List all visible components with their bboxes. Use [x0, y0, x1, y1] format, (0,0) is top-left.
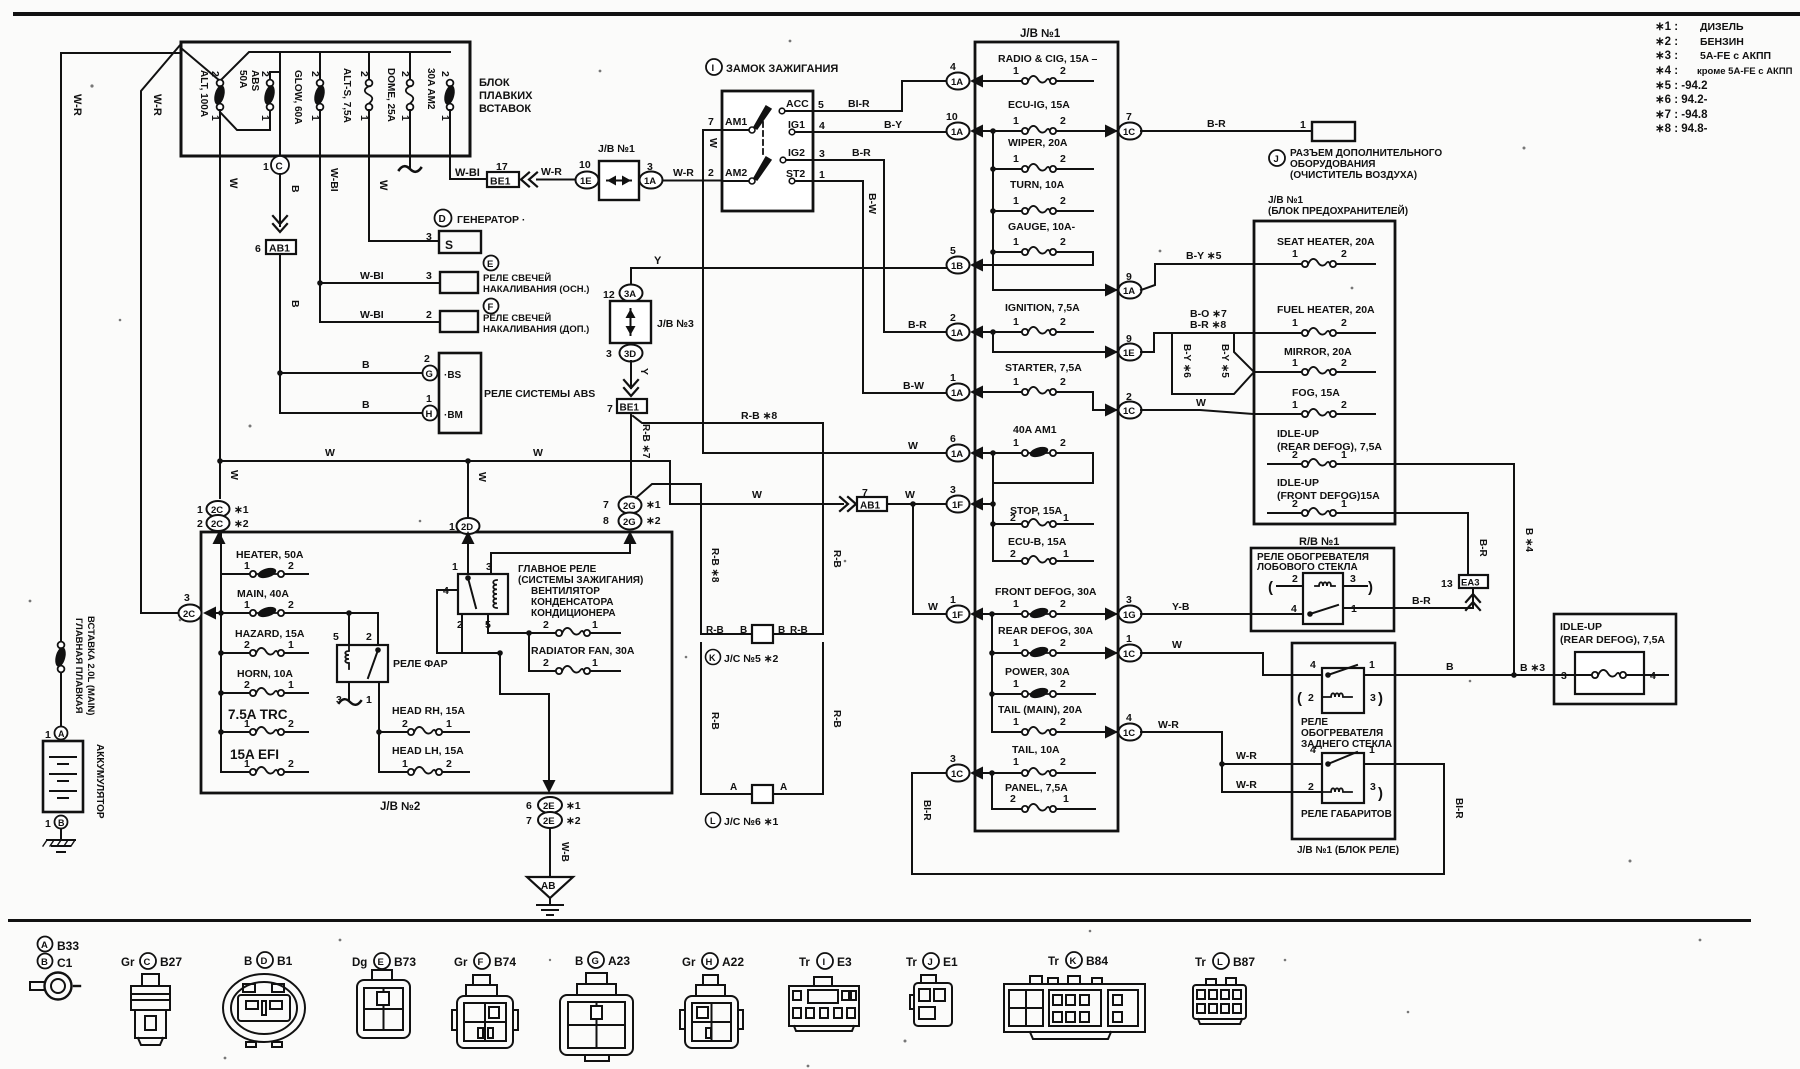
svg-text:A22: A22 — [722, 955, 744, 969]
windshield heater relay element — [1303, 573, 1343, 624]
svg-text:R-B: R-B — [790, 625, 808, 636]
svg-text:B-R: B-R — [908, 319, 927, 331]
svg-text:B: B — [362, 399, 370, 411]
svg-text:4: 4 — [1310, 744, 1316, 756]
svg-text:ALT, 100A: ALT, 100A — [198, 70, 209, 117]
dashed link between levers — [762, 122, 764, 155]
wire to 2E exit — [500, 653, 549, 780]
node A battery positive — [55, 727, 68, 740]
wire STARTER to 1C(2) — [1093, 392, 1118, 410]
svg-text:D: D — [439, 214, 446, 225]
bus AM1 out — [992, 453, 994, 561]
svg-text:B-Y: B-Y — [884, 119, 902, 131]
svg-text:10: 10 — [946, 111, 958, 123]
wire 40A AM1 loop back — [993, 453, 1093, 483]
svg-text:ECU-B, 15A: ECU-B, 15A — [1008, 536, 1067, 548]
svg-text:BI-R: BI-R — [848, 98, 870, 110]
svg-text:БЛОК: БЛОК — [479, 77, 510, 89]
svg-text:E: E — [487, 259, 493, 270]
svg-text:1: 1 — [1126, 633, 1132, 645]
svg-text:1: 1 — [1013, 316, 1019, 328]
arrow into J/B No2 from 2C — [213, 531, 226, 544]
svg-text:B: B — [244, 956, 252, 968]
svg-text:W-R: W-R — [151, 94, 163, 116]
svg-text:3: 3 — [426, 231, 432, 243]
fusible link GLOW 60A — [312, 80, 326, 111]
svg-text:7: 7 — [526, 815, 532, 827]
svg-text:B: B — [58, 818, 65, 828]
node C connector — [271, 156, 289, 174]
svg-text:1C: 1C — [1123, 649, 1135, 660]
svg-text:2: 2 — [1060, 65, 1066, 77]
svg-text:S: S — [445, 238, 453, 252]
svg-text:1: 1 — [592, 657, 598, 669]
node B battery negative — [55, 816, 68, 829]
svg-text:2: 2 — [1292, 498, 1298, 510]
wire W branch down to 2D oval — [467, 461, 469, 519]
svg-text:B: B — [289, 300, 301, 308]
svg-text:D: D — [261, 956, 268, 967]
svg-text:IDLE-UP: IDLE-UP — [1277, 477, 1319, 489]
svg-text:РЕЛЕ: РЕЛЕ — [1301, 717, 1328, 728]
svg-text:1: 1 — [1013, 153, 1019, 165]
svg-text:2G: 2G — [623, 517, 636, 528]
svg-text:F: F — [488, 302, 494, 313]
svg-text:2: 2 — [244, 679, 250, 691]
svg-text:∗2: ∗2 — [566, 815, 581, 827]
arrow into J/B No2 from 2G — [624, 531, 637, 544]
svg-text:ВЕНТИЛЯТОР: ВЕНТИЛЯТОР — [531, 586, 600, 597]
svg-text:1: 1 — [288, 639, 294, 651]
svg-text:(СИСТЕМЫ ЗАЖИГАНИЯ): (СИСТЕМЫ ЗАЖИГАНИЯ) — [518, 575, 643, 586]
wire W branch to 1F(1) — [913, 504, 946, 614]
svg-text:W-R: W-R — [541, 166, 562, 178]
wire W-R 1C(4) to parkback relays — [1141, 732, 1322, 764]
connector J E1 icon — [910, 975, 952, 1026]
svg-text:1: 1 — [1013, 115, 1019, 127]
svg-text:АККУМУЛЯТОР: АККУМУЛЯТОР — [94, 744, 105, 819]
svg-text:W-R: W-R — [71, 94, 83, 116]
svg-text:R-B: R-B — [709, 712, 720, 730]
wire DOME top/bottom with curl — [409, 52, 411, 168]
svg-text:4: 4 — [819, 120, 825, 132]
connector BE1 (7) — [624, 380, 638, 396]
wire GAUGE loop to 1B — [984, 252, 1093, 265]
svg-text:2: 2 — [1341, 317, 1347, 329]
wire relay pin1 to HEAD fuses — [378, 682, 380, 772]
svg-text:W: W — [476, 472, 488, 482]
wire below EA3 with arrow — [1472, 588, 1474, 607]
svg-text:W: W — [752, 489, 762, 501]
svg-text:4: 4 — [1126, 712, 1132, 724]
svg-text:2: 2 — [288, 599, 294, 611]
svg-text:E3: E3 — [837, 955, 852, 969]
svg-text:RADIO & CIG, 15A –: RADIO & CIG, 15A – — [998, 53, 1098, 65]
svg-text:1G: 1G — [1123, 610, 1136, 621]
svg-text:REAR DEFOG, 30A: REAR DEFOG, 30A — [998, 625, 1094, 637]
svg-text:∗3 :: ∗3 : — [1655, 50, 1678, 62]
svg-text:R-B: R-B — [831, 550, 842, 568]
fusible link 50A ABS — [262, 80, 276, 111]
svg-text:Tr: Tr — [1048, 956, 1059, 968]
svg-text:I: I — [823, 957, 826, 968]
svg-text:ГЛАВНОЕ РЕЛЕ: ГЛАВНОЕ РЕЛЕ — [518, 564, 597, 575]
svg-text:1: 1 — [1292, 317, 1298, 329]
connector F B74 icon — [452, 975, 518, 1048]
wire R-B ladder to J/C No6 — [701, 643, 823, 794]
svg-text:∗1: ∗1 — [646, 499, 661, 511]
svg-text:1: 1 — [1292, 248, 1298, 260]
svg-text:1: 1 — [244, 718, 250, 730]
svg-text:3: 3 — [606, 348, 612, 360]
main fusible link 2.0L (MAIN) — [53, 642, 67, 673]
svg-text:B-W: B-W — [903, 380, 924, 392]
svg-text:2: 2 — [1060, 716, 1066, 728]
svg-text:1: 1 — [446, 718, 452, 730]
svg-text:AB1: AB1 — [269, 243, 290, 255]
svg-text:RADIATOR FAN, 30A: RADIATOR FAN, 30A — [531, 645, 635, 657]
svg-text:J: J — [1274, 154, 1279, 165]
svg-text:КОНДЕНСАТОРА: КОНДЕНСАТОРА — [531, 597, 613, 608]
svg-text:A: A — [41, 940, 48, 951]
svg-text:C: C — [276, 162, 283, 173]
svg-text:(REAR DEFOG), 7,5A: (REAR DEFOG), 7,5A — [1560, 634, 1665, 646]
wire W AM1 feed to 1A(6) — [703, 452, 946, 454]
svg-text:15A EFI: 15A EFI — [230, 747, 279, 762]
svg-text:4: 4 — [950, 61, 956, 73]
svg-text:1: 1 — [244, 560, 250, 572]
bus wire inside fuse block — [181, 48, 450, 81]
svg-text:3: 3 — [426, 270, 432, 282]
svg-text:РЕЛЕ СИСТЕМЫ ABS: РЕЛЕ СИСТЕМЫ ABS — [484, 388, 595, 400]
svg-text:1C: 1C — [1123, 127, 1135, 138]
svg-text:КОНДИЦИОНЕРА: КОНДИЦИОНЕРА — [531, 608, 616, 619]
svg-text:B: B — [575, 956, 583, 968]
svg-text:1F: 1F — [952, 610, 963, 621]
svg-text:2C: 2C — [183, 609, 195, 620]
svg-text:J/B №2: J/B №2 — [380, 801, 420, 813]
ignition switch title (I) ЗАМОК ЗАЖИГАНИЯ — [706, 59, 722, 75]
svg-text:Gr: Gr — [121, 957, 135, 969]
svg-text:БЕНЗИН: БЕНЗИН — [1700, 36, 1744, 48]
svg-text:R-B ∗7: R-B ∗7 — [640, 424, 651, 459]
svg-text:B33: B33 — [57, 939, 79, 953]
svg-text:3: 3 — [1561, 670, 1567, 682]
svg-text:∗2: ∗2 — [646, 515, 661, 527]
svg-text:2: 2 — [288, 560, 294, 572]
svg-text:1: 1 — [1013, 678, 1019, 690]
wire W 1C(1) to rear defog relay — [1141, 653, 1322, 675]
svg-text:J/B №1 (БЛОК РЕЛЕ): J/B №1 (БЛОК РЕЛЕ) — [1297, 845, 1399, 856]
generator D — [435, 210, 452, 227]
svg-text:HEAD RH, 15A: HEAD RH, 15A — [392, 705, 465, 717]
connector D B1 icon — [223, 974, 305, 1047]
svg-text:1: 1 — [426, 393, 432, 405]
svg-text:2: 2 — [1010, 548, 1016, 560]
svg-text:2: 2 — [1060, 236, 1066, 248]
svg-text:3A: 3A — [624, 289, 636, 300]
svg-text:B-R ∗8: B-R ∗8 — [1190, 319, 1226, 331]
wire W-R BE1 to 1E — [537, 179, 576, 181]
fusible link 30A AM2 — [442, 80, 456, 111]
svg-text:W-BI: W-BI — [360, 270, 384, 282]
svg-text:1: 1 — [288, 679, 294, 691]
svg-text:3: 3 — [950, 753, 956, 765]
svg-text:1: 1 — [592, 619, 598, 631]
svg-text:A: A — [730, 782, 737, 793]
svg-text:7: 7 — [1126, 111, 1132, 123]
svg-text:3: 3 — [184, 592, 190, 604]
svg-text:1: 1 — [1013, 376, 1019, 388]
svg-text:13: 13 — [1441, 578, 1453, 590]
svg-text:5A-FE с АКПП: 5A-FE с АКПП — [1700, 50, 1771, 62]
svg-text:ECU-IG, 15A: ECU-IG, 15A — [1008, 99, 1070, 111]
svg-text:J/C №5 ∗2: J/C №5 ∗2 — [724, 653, 779, 665]
svg-text:A: A — [780, 782, 787, 793]
svg-text:1: 1 — [1292, 357, 1298, 369]
svg-text:W: W — [228, 470, 240, 480]
svg-text:·BM: ·BM — [444, 410, 463, 421]
svg-text:∗4 :: ∗4 : — [1655, 65, 1678, 77]
svg-text:H: H — [426, 409, 433, 420]
rear window defogger relay — [1322, 668, 1364, 713]
node G pin 2 BS — [423, 366, 438, 381]
svg-text:R-B ∗8: R-B ∗8 — [741, 410, 777, 422]
svg-text:AB1: AB1 — [860, 501, 880, 512]
svg-text:B-Y ∗5: B-Y ∗5 — [1219, 344, 1230, 378]
wire Y-B 1G(3) to relay pin 4 — [1141, 613, 1303, 615]
svg-text:1C: 1C — [1123, 728, 1135, 739]
svg-text:R/B №1: R/B №1 — [1299, 536, 1339, 548]
svg-text:2: 2 — [1308, 692, 1314, 704]
svg-text:2: 2 — [1308, 781, 1314, 793]
svg-text:∗1 :: ∗1 : — [1655, 21, 1678, 33]
J/B No3 box — [610, 301, 651, 343]
svg-text:1: 1 — [244, 758, 250, 770]
bus J/B No2 left column — [220, 532, 222, 772]
svg-text:1: 1 — [263, 161, 269, 173]
svg-text:K: K — [709, 653, 716, 663]
svg-text:2: 2 — [424, 353, 430, 365]
double arrow inside J/B No3 — [630, 309, 632, 335]
wire W-R left no.2 (diagonal from block corner) — [141, 44, 181, 608]
svg-text:2: 2 — [1060, 637, 1066, 649]
svg-text:DOME, 25A: DOME, 25A — [385, 68, 396, 122]
svg-text:1: 1 — [1013, 437, 1019, 449]
wire R-B*8 BE1 branch right — [633, 416, 823, 456]
svg-text:FOG, 15A: FOG, 15A — [1292, 387, 1340, 399]
fusible link ALT,100A — [212, 80, 226, 111]
svg-text:B-Y ∗5: B-Y ∗5 — [1186, 250, 1222, 262]
svg-text:EA3: EA3 — [1461, 578, 1479, 589]
bottom separator line — [8, 919, 1751, 922]
connector H A22 icon — [680, 975, 743, 1048]
svg-text:Gr: Gr — [682, 957, 696, 969]
svg-text:Y: Y — [638, 368, 650, 375]
J/B No2 box — [201, 532, 672, 793]
svg-text:ABS: ABS — [249, 70, 260, 91]
svg-text:3: 3 — [1370, 692, 1376, 704]
ground below battery — [47, 829, 75, 852]
wire B-O*7/B-R*8 1E(9) to FUEL HEATER — [1141, 333, 1254, 352]
svg-text:3: 3 — [1126, 594, 1132, 606]
svg-text:W-R: W-R — [673, 167, 694, 179]
svg-text:2: 2 — [1292, 573, 1298, 585]
svg-text:∗1: ∗1 — [234, 504, 249, 516]
svg-text:(: ( — [1297, 690, 1302, 707]
svg-text:AB: AB — [541, 881, 555, 892]
svg-text:B: B — [41, 957, 48, 968]
svg-text:B: B — [362, 359, 370, 371]
wire W-R 1A to ignition AM2 — [663, 180, 722, 182]
coil inside РЕЛЕ ФАР — [345, 645, 349, 669]
svg-text:∗1: ∗1 — [566, 800, 581, 812]
connector L B87 icon — [1193, 978, 1246, 1024]
wire B-R IG2 to 1A(2) — [813, 160, 946, 332]
svg-text:Dg: Dg — [352, 957, 367, 969]
svg-text:BE1: BE1 — [490, 176, 511, 188]
svg-text:W-R: W-R — [1236, 750, 1257, 762]
svg-text:B-R: B-R — [1412, 595, 1431, 607]
svg-text:12: 12 — [603, 289, 615, 301]
svg-text:2: 2 — [402, 718, 408, 730]
svg-text:РЕЛЕ СВЕЧЕЙ: РЕЛЕ СВЕЧЕЙ — [483, 312, 551, 324]
svg-text:2: 2 — [288, 758, 294, 770]
svg-text:кроме 5A-FE с АКПП: кроме 5A-FE с АКПП — [1697, 66, 1793, 77]
svg-text:I: I — [712, 63, 715, 74]
wire B-R relay pin1 to EA3 — [1343, 607, 1473, 608]
fusible link block box (БЛОК ПЛАВКИХ ВСТАВОК) — [181, 42, 470, 156]
wires MAIN row to relay pins — [349, 613, 378, 645]
svg-text:BE1: BE1 — [620, 403, 640, 414]
svg-text:AM2: AM2 — [725, 167, 747, 179]
svg-text:2: 2 — [708, 167, 714, 179]
svg-text:ST2: ST2 — [786, 168, 805, 180]
accessory connector box (air cleaner) — [1312, 122, 1355, 141]
wire BI-R taillight relay loop — [912, 764, 1444, 874]
svg-text:ОБОРУДОВАНИЯ: ОБОРУДОВАНИЯ — [1290, 159, 1375, 170]
svg-text:2: 2 — [1010, 512, 1016, 524]
svg-text:1: 1 — [1013, 716, 1019, 728]
svg-text:1: 1 — [1013, 756, 1019, 768]
svg-text:РАЗЪЕМ ДОПОЛНИТЕЛЬНОГО: РАЗЪЕМ ДОПОЛНИТЕЛЬНОГО — [1290, 148, 1442, 159]
svg-text:2: 2 — [1060, 756, 1066, 768]
svg-text:1: 1 — [1063, 512, 1069, 524]
battery АККУМУЛЯТОР — [43, 741, 83, 812]
svg-text:IGNITION, 7,5A: IGNITION, 7,5A — [1005, 302, 1080, 314]
fusible link DOME,25A — [406, 80, 414, 111]
svg-text:1: 1 — [1013, 195, 1019, 207]
svg-text:W: W — [707, 138, 719, 148]
svg-text:FUEL HEATER, 20A: FUEL HEATER, 20A — [1277, 304, 1375, 316]
svg-text:ВСТАВКА 2.0L (MAIN): ВСТАВКА 2.0L (MAIN) — [85, 616, 96, 715]
svg-text:W-BI: W-BI — [360, 309, 384, 321]
wire Y 3D to BE1 — [630, 361, 632, 388]
svg-text:B ∗3: B ∗3 — [1520, 662, 1545, 674]
svg-text:1: 1 — [1369, 659, 1375, 671]
svg-text:1: 1 — [819, 169, 825, 181]
svg-text:ОБОГРЕВАТЕЛЯ: ОБОГРЕВАТЕЛЯ — [1301, 728, 1383, 739]
svg-text:Tr: Tr — [1195, 957, 1206, 969]
svg-text:2: 2 — [1060, 115, 1066, 127]
svg-text:B: B — [778, 625, 785, 636]
svg-text:ГЛАВНАЯ ПЛАВКАЯ: ГЛАВНАЯ ПЛАВКАЯ — [73, 618, 84, 714]
svg-text:5: 5 — [333, 631, 339, 643]
arrow into J/B No2 from 2D — [462, 531, 475, 544]
svg-text:2: 2 — [1060, 678, 1066, 690]
svg-text:W-BI: W-BI — [328, 168, 340, 192]
svg-text:1: 1 — [197, 504, 203, 516]
svg-text:C1: C1 — [57, 956, 73, 970]
svg-text:R-B ∗8: R-B ∗8 — [709, 548, 720, 583]
ground AB triangle — [527, 877, 573, 898]
connector I E3 icon — [789, 977, 859, 1031]
svg-text:1: 1 — [1292, 399, 1298, 411]
svg-text:J/C №6 ∗1: J/C №6 ∗1 — [724, 816, 779, 828]
wire 2D to main relay — [467, 534, 469, 574]
svg-text:10: 10 — [579, 159, 591, 171]
svg-text:∗2 :: ∗2 : — [1655, 36, 1678, 48]
svg-text:3: 3 — [950, 484, 956, 496]
wire main relay pin5 to fan fuse — [488, 614, 529, 633]
svg-text:IDLE-UP: IDLE-UP — [1277, 428, 1319, 440]
svg-text:G: G — [426, 369, 433, 380]
svg-text:2: 2 — [1292, 449, 1298, 461]
svg-text:2: 2 — [543, 619, 549, 631]
svg-text:40A AM1: 40A AM1 — [1013, 424, 1057, 436]
svg-text:6: 6 — [950, 433, 956, 445]
wire W-R lower branch — [1222, 764, 1322, 792]
node B label C1 — [38, 954, 53, 969]
svg-text:ДИЗЕЛЬ: ДИЗЕЛЬ — [1700, 21, 1744, 33]
wire ALT-S top/bottom W to generator — [369, 52, 439, 241]
svg-text:B1: B1 — [277, 954, 293, 968]
svg-text:1A: 1A — [951, 77, 963, 88]
svg-text:W: W — [377, 180, 389, 191]
svg-text:ACC: ACC — [786, 98, 809, 110]
svg-text:ALT-S, 7,5A: ALT-S, 7,5A — [341, 68, 352, 123]
svg-text:2: 2 — [1341, 248, 1347, 260]
ABS system relay box — [439, 353, 481, 433]
svg-text:2: 2 — [950, 312, 956, 324]
wire BI-R ACC to 1A(4) — [813, 81, 946, 111]
svg-text:B87: B87 — [1233, 955, 1255, 969]
svg-text:1F: 1F — [952, 500, 963, 511]
svg-text:F: F — [478, 957, 484, 968]
wire W ignition AM1 feed — [703, 130, 722, 453]
svg-text:7: 7 — [603, 499, 609, 511]
svg-text:A23: A23 — [608, 954, 630, 968]
svg-text:Y-B: Y-B — [1172, 601, 1190, 613]
wire ALT output W down — [219, 110, 221, 460]
wire B-R idle-up front defog to EA3 — [1395, 513, 1468, 575]
bus IGNITION to 1E — [993, 332, 1118, 352]
svg-text:AM1: AM1 — [725, 116, 747, 128]
wire B*3 to idle-up fuse box — [1514, 674, 1575, 676]
switch inside РЕЛЕ ФАР — [375, 647, 381, 653]
svg-text:J/B №1: J/B №1 — [1020, 28, 1061, 40]
svg-text:B: B — [289, 185, 301, 193]
wire B-Y IG1 to 1A(10) — [813, 131, 946, 133]
svg-text:7: 7 — [708, 116, 714, 128]
coil inside main relay — [493, 580, 497, 608]
fuse inside idle-up box — [1575, 674, 1668, 676]
svg-text:B: B — [1446, 661, 1454, 673]
svg-text:3: 3 — [1350, 573, 1356, 585]
svg-text:2E: 2E — [543, 816, 555, 827]
svg-text:B-R: B-R — [852, 147, 871, 159]
svg-text:B73: B73 — [394, 955, 416, 969]
